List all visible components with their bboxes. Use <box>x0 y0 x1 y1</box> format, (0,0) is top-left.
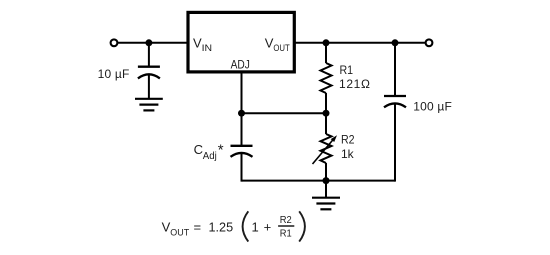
wire R2 top lead <box>325 113 327 134</box>
svg-text:V: V <box>162 219 171 234</box>
wire bottom rail <box>242 180 396 182</box>
svg-text:*: * <box>218 141 224 158</box>
svg-text:C: C <box>194 142 203 157</box>
wire cap to ground <box>148 75 150 99</box>
svg-text:OUT: OUT <box>273 43 290 53</box>
svg-text:1k: 1k <box>341 147 355 161</box>
wire VOUT to output <box>294 42 425 44</box>
resistor R2 (variable) <box>313 134 338 164</box>
node R1 top <box>323 39 330 46</box>
output terminal <box>426 39 433 46</box>
wire ADJ pin <box>241 71 243 113</box>
wire C_adj top lead <box>241 113 243 146</box>
svg-text:100 µF: 100 µF <box>413 99 452 113</box>
formula Vout = 1.25 (1 + R2/R1) <box>162 211 305 241</box>
resistor R1 <box>321 63 332 93</box>
wire input cap lead <box>148 43 150 67</box>
svg-text:R2: R2 <box>341 133 355 147</box>
svg-text:+: + <box>264 219 272 234</box>
capacitor C_in 10uF <box>138 67 160 79</box>
svg-text:OUT: OUT <box>170 227 189 237</box>
node R2 bottom <box>323 177 330 184</box>
svg-text:Adj: Adj <box>203 151 217 162</box>
svg-text:IN: IN <box>202 43 213 53</box>
wire ADJ horizontal <box>242 112 327 114</box>
svg-text:R2: R2 <box>280 215 292 226</box>
ground (main) <box>312 198 340 210</box>
svg-text:R1: R1 <box>280 228 292 239</box>
wire C_adj bottom lead <box>241 153 243 182</box>
svg-text:1: 1 <box>252 219 259 234</box>
wire R2 bottom lead <box>325 163 327 181</box>
wire R1 top lead <box>325 43 327 63</box>
wire input to regulator VIN <box>118 42 188 44</box>
node ADJ left <box>238 110 245 117</box>
wire C_out top lead <box>394 43 396 96</box>
wire ground stem <box>325 181 327 198</box>
node input junction <box>145 39 152 46</box>
svg-text:R1: R1 <box>340 63 354 77</box>
wire R1 bottom lead <box>325 93 327 113</box>
svg-text:121Ω: 121Ω <box>339 77 370 91</box>
wire C_out bottom lead <box>394 103 396 181</box>
capacitor C_out 100uF <box>384 96 406 107</box>
input terminal <box>111 39 118 46</box>
capacitor C_adj <box>231 146 253 157</box>
pin label VIN <box>193 36 212 53</box>
node ADJ right <box>323 110 330 117</box>
ground (input cap) <box>135 99 163 111</box>
svg-text:10 µF: 10 µF <box>98 67 130 81</box>
svg-text:ADJ: ADJ <box>231 58 250 72</box>
regulator U1 <box>188 12 294 72</box>
label C_adj <box>194 141 224 162</box>
pin label VOUT <box>265 36 290 53</box>
svg-text:1.25: 1.25 <box>209 219 234 234</box>
node C_out top <box>392 39 399 46</box>
svg-text:=: = <box>194 219 202 234</box>
